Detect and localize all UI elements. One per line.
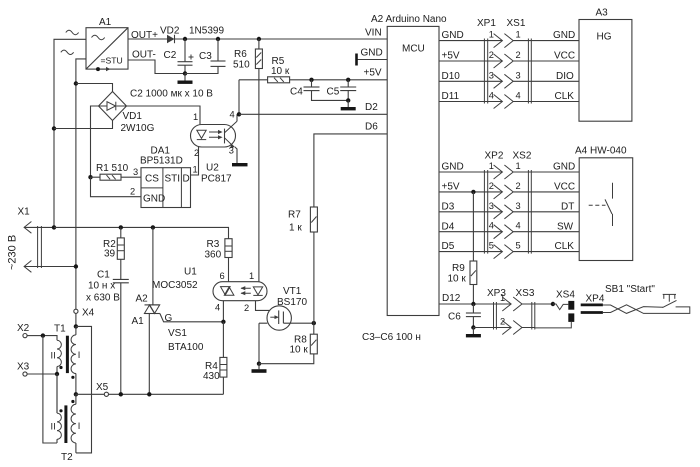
svg-text:3: 3	[516, 201, 521, 211]
svg-text:4: 4	[230, 110, 235, 120]
node C4/C5 ground	[346, 98, 350, 102]
MCU A2 Arduino Nano	[371, 14, 447, 316]
capacitor C2 (electrolytic)	[164, 39, 194, 74]
ground under VT1	[258, 364, 260, 370]
svg-text:GND: GND	[553, 30, 575, 41]
display module A3	[579, 8, 632, 122]
svg-text:1: 1	[489, 161, 494, 171]
diode VD2	[160, 26, 224, 44]
svg-text:VIN: VIN	[365, 28, 382, 39]
MCU pin GND stub	[357, 48, 388, 66]
wire rows XP2 group	[439, 171, 579, 173]
transformer T2	[51, 374, 81, 463]
wire X1 row1 to R3 corner	[54, 227, 229, 238]
svg-text:I: I	[78, 350, 81, 360]
node C2 top	[183, 37, 187, 41]
capacitor C4	[290, 80, 348, 101]
svg-text:A1: A1	[99, 17, 112, 28]
node triac A1 on X5 row	[147, 392, 151, 396]
svg-text:4: 4	[516, 91, 521, 101]
push button SB1 "Start"	[605, 284, 677, 308]
svg-text:XS3: XS3	[516, 288, 535, 299]
node X3 / T1 secondary bottom	[55, 372, 59, 376]
wire OUT-	[128, 60, 185, 74]
capacitor C3	[185, 39, 226, 74]
twisted pair wire A	[603, 305, 663, 313]
connector XP2	[484, 151, 503, 259]
svg-text:10 к: 10 к	[448, 274, 467, 285]
wire row2 XP3	[473, 327, 534, 329]
wire bridge+ to U2 pin1	[127, 106, 201, 125]
svg-text:VT1: VT1	[283, 286, 302, 297]
AC squiggle input 1	[66, 30, 79, 34]
resistor R3	[205, 239, 233, 282]
svg-text:CS: CS	[145, 174, 159, 185]
svg-text:C2 1000 мк x 10 В: C2 1000 мк x 10 В	[130, 89, 213, 100]
VT1 source wire to ground	[258, 323, 260, 364]
svg-text:VD1: VD1	[123, 111, 143, 122]
node D12 / R9 / C6	[471, 302, 475, 306]
svg-text:OUT-: OUT-	[132, 50, 156, 61]
node U2 collector / D2 / R5	[237, 112, 241, 116]
node R9 tap on +5V row	[471, 190, 475, 194]
ground under C5	[347, 100, 349, 107]
capacitor C1	[86, 259, 129, 394]
U1 pin 2 wire to VT1 drain	[256, 301, 279, 311]
connector XS3	[513, 288, 535, 335]
plug XP4	[581, 294, 605, 313]
svg-text:R1 510: R1 510	[96, 163, 129, 174]
wire X3 node down to T2 secondary top	[56, 374, 58, 413]
node T1 primary top	[74, 324, 78, 328]
svg-text:XS4: XS4	[556, 290, 575, 301]
resistor R5	[268, 56, 388, 83]
svg-text:5: 5	[516, 241, 521, 251]
node C1 bottom on X5 row	[119, 392, 123, 396]
encoder switch symbol	[589, 183, 613, 226]
wire X2 rail down to T2 secondary bottom	[43, 336, 57, 443]
svg-text:R6: R6	[234, 49, 247, 60]
svg-text:VD2: VD2	[160, 26, 180, 37]
svg-text:X4: X4	[82, 308, 95, 319]
node R6 top	[257, 37, 261, 41]
svg-text:39: 39	[104, 249, 116, 260]
svg-text:SB1 "Start": SB1 "Start"	[605, 284, 655, 295]
svg-text:D12: D12	[442, 293, 461, 304]
svg-text:D6: D6	[365, 122, 378, 133]
svg-text:D: D	[183, 174, 190, 185]
svg-text:XP4: XP4	[586, 294, 605, 305]
capacitor C5	[327, 80, 357, 101]
svg-text:GND: GND	[553, 162, 575, 173]
svg-text:D11: D11	[442, 91, 460, 102]
svg-text:1: 1	[500, 293, 505, 303]
svg-text:II: II	[51, 351, 56, 361]
terminal X5	[96, 382, 109, 396]
svg-text:+5V: +5V	[442, 51, 460, 62]
node C4 top	[309, 78, 313, 82]
wire to bridge top vertex	[76, 84, 113, 92]
node C2 bottom / ground	[183, 71, 187, 75]
svg-text:=STU: =STU	[101, 56, 123, 66]
svg-text:+5V: +5V	[442, 182, 460, 193]
svg-text:10 к: 10 к	[290, 345, 309, 356]
svg-text:II: II	[51, 422, 56, 432]
node C3 top	[216, 37, 220, 41]
U1 pin 4 wire to gate node	[222, 301, 224, 322]
svg-text:1: 1	[516, 161, 521, 171]
wire bridge bottom vertex to left rail	[54, 121, 113, 129]
resistor R7	[288, 207, 317, 323]
svg-text:DT: DT	[561, 201, 574, 212]
svg-text:VCC: VCC	[554, 182, 575, 193]
AC squiggle input 2	[61, 50, 74, 54]
svg-text:1: 1	[193, 165, 198, 175]
svg-text:C5: C5	[327, 87, 340, 98]
wire A1 input 1 from X1	[54, 39, 86, 227]
U2 pin 4 wire to D2 node	[236, 114, 238, 121]
svg-text:SW: SW	[557, 221, 574, 232]
svg-text:2: 2	[244, 303, 249, 313]
wire DA1 pin2 GND	[91, 177, 142, 197]
svg-text:1: 1	[489, 30, 494, 40]
MOSFET VT1 BS170	[259, 286, 314, 330]
resistor R6	[233, 39, 262, 71]
resistor R1	[91, 163, 142, 180]
svg-text:3: 3	[133, 167, 138, 177]
svg-text:A1: A1	[132, 316, 145, 327]
svg-text:A2 Arduino Nano: A2 Arduino Nano	[371, 14, 447, 25]
svg-text:10 к: 10 к	[271, 66, 290, 77]
svg-text:510: 510	[233, 60, 250, 71]
node triac A2 tap on row1	[151, 225, 155, 229]
svg-text:430: 430	[203, 371, 220, 382]
svg-text:MCU: MCU	[402, 44, 425, 55]
wire OUT+ top rail to MCU VIN	[128, 38, 387, 40]
svg-text:STI: STI	[165, 174, 181, 185]
wire D12 row	[439, 303, 553, 305]
resistor R9	[448, 192, 477, 304]
terminal X2	[17, 323, 43, 338]
svg-text:4: 4	[215, 303, 220, 313]
svg-text:MOC3052: MOC3052	[152, 280, 198, 291]
node X1 row2 / X4 rail	[74, 264, 78, 268]
svg-text:1: 1	[249, 271, 254, 281]
svg-text:GND: GND	[143, 194, 165, 205]
svg-text:D5: D5	[442, 241, 455, 252]
svg-text:D10: D10	[442, 71, 461, 82]
svg-text:VCC: VCC	[554, 51, 575, 62]
svg-text:A3: A3	[596, 8, 609, 19]
U2 pin 2 + wire to DA1 D	[191, 147, 199, 175]
svg-text:GND: GND	[442, 30, 464, 41]
svg-text:U2: U2	[206, 163, 219, 174]
wire +5V pullup node: U2 pin4 riser	[239, 80, 268, 115]
svg-text:2: 2	[194, 148, 199, 158]
wire R6 bottom to U1 pin1 (long rail)	[258, 69, 260, 282]
ground under C2	[184, 74, 186, 81]
twisted pair wire B and wrap to SB1 right	[603, 305, 690, 314]
svg-text:5: 5	[489, 241, 494, 251]
svg-text:X1: X1	[18, 207, 31, 218]
node C5 top	[346, 78, 350, 82]
svg-text:~230 В: ~230 В	[7, 235, 19, 270]
svg-text:4: 4	[489, 221, 494, 231]
svg-text:C3–C6 100 н: C3–C6 100 н	[362, 332, 421, 343]
svg-text:XP1: XP1	[477, 18, 496, 29]
node C6 bottom / row2	[471, 325, 475, 329]
wire D2 to MCU	[239, 113, 387, 115]
svg-text:C2: C2	[164, 50, 177, 61]
wire rows XP1 group	[439, 40, 579, 42]
svg-text:360: 360	[205, 250, 222, 261]
svg-text:+5V: +5V	[364, 68, 382, 79]
resistor R4	[203, 322, 227, 395]
resistor R2	[103, 227, 124, 259]
svg-text:GND: GND	[361, 48, 383, 59]
node X2 rail	[41, 333, 45, 337]
svg-text:4: 4	[516, 221, 521, 231]
svg-text:CLK: CLK	[555, 91, 575, 102]
ground under C6	[472, 328, 474, 335]
connector XS2	[504, 151, 531, 259]
wire bridge left vertex to R1/DA1 gnd rail	[91, 106, 99, 177]
svg-text:I: I	[78, 421, 81, 431]
svg-text:BS170: BS170	[277, 297, 307, 308]
wire X5 row	[76, 393, 224, 395]
U2 pin 3 emitter to ground	[235, 147, 237, 163]
wire D6 to R7	[314, 134, 387, 207]
svg-text:GND: GND	[442, 162, 464, 173]
wire ground rail to R8 bottom	[259, 354, 314, 364]
svg-text:2W10G: 2W10G	[121, 123, 155, 134]
svg-text:PC817: PC817	[201, 174, 232, 185]
node X5 row left	[74, 392, 78, 396]
svg-text:BTA100: BTA100	[168, 342, 204, 353]
resistor R8	[290, 323, 318, 355]
node X1 row1 / left rail	[52, 225, 56, 229]
node R2 tap on row1	[119, 225, 123, 229]
svg-text:х 630 В: х 630 В	[86, 293, 120, 304]
svg-text:D3: D3	[442, 201, 455, 212]
svg-text:X5: X5	[96, 382, 109, 393]
svg-text:R3: R3	[207, 239, 220, 250]
svg-text:3: 3	[229, 146, 234, 156]
svg-text:D4: D4	[442, 221, 455, 232]
terminal X4	[74, 308, 95, 327]
svg-text:1 к: 1 к	[289, 223, 302, 234]
ground under U2	[232, 163, 248, 166]
connector X1	[7, 207, 76, 273]
svg-text:XP2: XP2	[485, 151, 504, 162]
svg-text:C4: C4	[290, 87, 303, 98]
triac VS1 BTA100	[132, 227, 224, 394]
terminal X3	[17, 362, 57, 377]
node: rail to bridge bottom	[52, 126, 56, 130]
svg-text:2: 2	[500, 317, 505, 327]
connector XP1	[477, 18, 502, 109]
svg-text:VS1: VS1	[168, 328, 187, 339]
svg-text:X2: X2	[17, 323, 30, 334]
svg-text:A2: A2	[136, 294, 149, 305]
svg-text:U1: U1	[184, 267, 197, 278]
svg-text:2: 2	[489, 50, 494, 60]
svg-text:3: 3	[489, 70, 494, 80]
svg-text:A4 HW-040: A4 HW-040	[575, 146, 627, 157]
svg-text:4: 4	[489, 91, 494, 101]
capacitor C6	[448, 304, 481, 328]
svg-text:C6: C6	[448, 312, 461, 323]
svg-text:T1: T1	[54, 324, 66, 335]
svg-text:1N5399: 1N5399	[189, 26, 224, 37]
svg-text:CLK: CLK	[555, 241, 575, 252]
svg-text:HG: HG	[597, 32, 612, 43]
optocoupler U2 PC817	[191, 121, 238, 184]
wire A1 input 2 from X1 lower	[76, 59, 86, 309]
svg-text:3: 3	[489, 201, 494, 211]
encoder module A4 HW-040	[575, 146, 633, 261]
svg-text:1: 1	[516, 30, 521, 40]
node gate / R4	[221, 320, 225, 324]
svg-text:C3: C3	[199, 51, 212, 62]
svg-text:6: 6	[220, 271, 225, 281]
svg-text:G: G	[165, 313, 173, 324]
svg-text:T2: T2	[61, 452, 73, 463]
svg-text:2: 2	[130, 187, 135, 197]
node R1 / DA1 gnd	[88, 175, 92, 179]
svg-text:BP5131D: BP5131D	[140, 156, 183, 167]
IC DA1 BP5131D	[140, 146, 191, 208]
svg-text:X3: X3	[17, 362, 30, 373]
svg-text:DIO: DIO	[556, 71, 574, 82]
svg-text:1: 1	[193, 112, 198, 122]
svg-text:10 н х: 10 н х	[88, 281, 115, 292]
svg-text:2: 2	[489, 181, 494, 191]
svg-text:3: 3	[516, 70, 521, 80]
svg-text:XS2: XS2	[513, 151, 532, 162]
connector XS1	[504, 18, 531, 109]
jack socket XS4	[535, 290, 576, 328]
svg-text:XS1: XS1	[507, 18, 526, 29]
svg-text:OUT+: OUT+	[131, 30, 158, 41]
wire bypass T1 top to T2 bottom	[76, 326, 92, 453]
svg-text:R7: R7	[288, 210, 301, 221]
converter module A1	[86, 17, 128, 71]
svg-text:2: 2	[516, 50, 521, 60]
node: bridge AC feed	[74, 81, 78, 85]
svg-text:C1: C1	[97, 270, 110, 281]
bridge rectifier VD1	[99, 92, 155, 135]
svg-text:D2: D2	[365, 102, 378, 113]
node source/ground rail	[257, 362, 261, 366]
connector XP3	[487, 288, 511, 335]
node gate / R8 top	[312, 321, 316, 325]
transformer T1	[43, 324, 80, 395]
svg-text:R9: R9	[452, 263, 465, 274]
optotriac U1 MOC3052	[152, 267, 267, 301]
svg-text:2: 2	[516, 181, 521, 191]
